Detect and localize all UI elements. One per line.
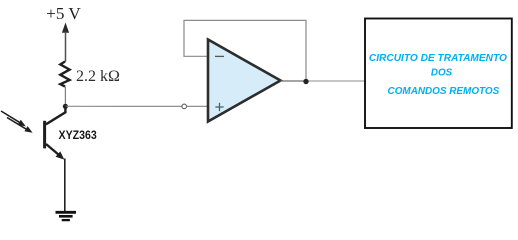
op-amp U1 triangle <box>208 40 281 122</box>
input terminal open circle <box>182 104 187 109</box>
op-amp plus sign <box>215 103 223 111</box>
wire: node A to input terminal <box>65 105 181 107</box>
light arrow 2 <box>7 118 33 133</box>
svg-text:2.2 kΩ: 2.2 kΩ <box>76 68 120 85</box>
wire: terminal to op-amp plus input <box>187 105 208 107</box>
node A junction dot <box>63 104 68 109</box>
light arrow 1 <box>1 111 26 126</box>
output node junction dot <box>303 79 308 84</box>
wire: emitter to ground <box>64 159 66 212</box>
svg-text:CIRCUITO DE TRATAMENTO: CIRCUITO DE TRATAMENTO <box>369 53 507 64</box>
wire: output node to box <box>306 80 365 82</box>
op-amp minus sign <box>215 55 224 57</box>
ground symbol <box>56 212 77 220</box>
phototransistor Q1 base bar <box>43 121 46 149</box>
svg-text:+5 V: +5 V <box>46 4 81 23</box>
svg-text:DOS: DOS <box>431 67 453 78</box>
svg-text:XYZ363: XYZ363 <box>59 130 97 142</box>
resistor R1 2.2 kOhm zigzag <box>60 62 69 87</box>
+5 V supply arrow <box>62 23 69 62</box>
svg-text:COMANDOS REMOTOS: COMANDOS REMOTOS <box>388 86 500 97</box>
wire: op-amp output to box <box>281 80 307 82</box>
wire: resistor to node A <box>64 87 66 107</box>
phototransistor Q1 emitter with arrow <box>46 144 64 160</box>
box: circuito de tratamento <box>365 19 512 129</box>
phototransistor Q1 collector lead <box>46 106 65 124</box>
wire: feedback loop from minus input to output node <box>184 20 306 81</box>
